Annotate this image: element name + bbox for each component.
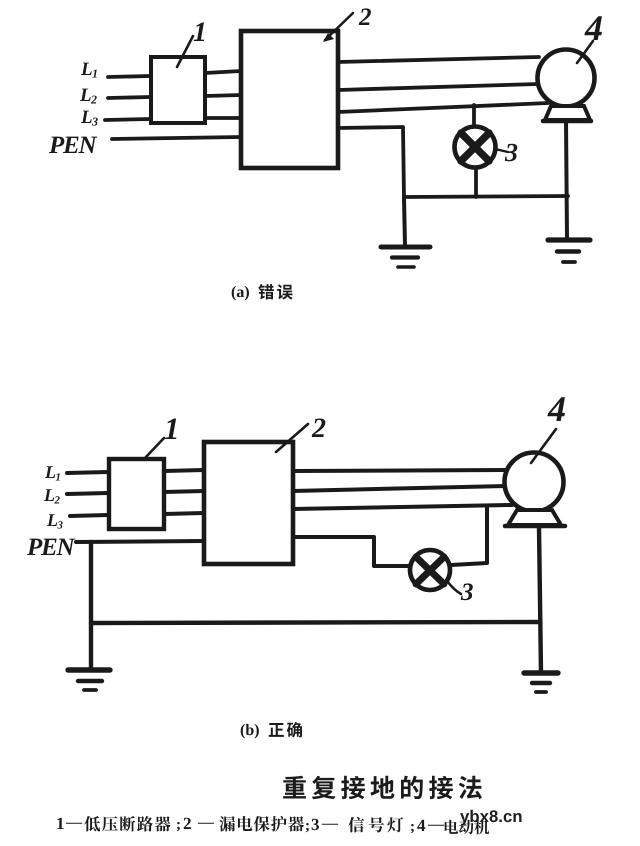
signal lamp 3 (b) [410, 550, 450, 590]
legend item 2 leakage protector [219, 816, 304, 832]
wire lamp right up to L3 (b) [451, 506, 487, 565]
wire N RCD output to lamp left (b) [293, 537, 411, 566]
wire lamp bottom to bus (a) [474, 167, 478, 197]
wire L1 input to breaker (a) [108, 76, 150, 77]
motor 4 circle (a) [538, 50, 595, 107]
RCD box 2 (a) leakage protector [241, 31, 338, 168]
motor 4 circle (b) [505, 453, 564, 512]
wire L2 breaker to RCD (b) [164, 491, 204, 492]
wire L2 input to breaker (b) [67, 493, 108, 494]
node L1 label (diagram b) [45, 466, 60, 480]
label 3 leader line (a) [495, 149, 508, 152]
wire L3 input to breaker (b) [70, 515, 108, 516]
wire L1 breaker to RCD (a) [205, 71, 241, 73]
wire L1 RCD to motor (a) [338, 57, 539, 62]
caption (a) wrong [232, 286, 249, 301]
wire motor down to ground (b) [539, 527, 541, 673]
title: repeated grounding connection method [283, 776, 482, 800]
label 4 (a) [584, 16, 602, 40]
breaker box 1 (b) low-voltage circuit breaker [109, 459, 164, 529]
RCD box 2 (b) leakage protector [204, 442, 293, 564]
node L2 label (diagram a) [80, 89, 97, 104]
wire L3 breaker to RCD (a) [205, 116, 241, 120]
label 4 (b) [547, 397, 565, 421]
label 4 leader line (a) [577, 41, 593, 63]
label 3 (b) [461, 583, 473, 600]
node L3 label (diagram b) [47, 514, 63, 528]
caption (b) correct [241, 724, 259, 739]
label 1 leader line (b) [145, 438, 164, 458]
legend item 1 low-voltage circuit breaker [57, 818, 82, 829]
wire L2 RCD to motor (a) [338, 84, 538, 90]
legend item 3 signal lamp [348, 817, 403, 833]
legend item 4 electric motor [445, 820, 490, 835]
node L3 label (diagram a) [81, 111, 98, 126]
wire L2 breaker to RCD (a) [205, 95, 241, 96]
label 2 (b) [312, 419, 326, 438]
wire PEN input to RCD (b) [76, 541, 204, 542]
signal lamp 3 (a) [455, 127, 496, 168]
label 2 leader line (b) [276, 424, 308, 452]
label 4 leader line (b) [531, 429, 556, 463]
wire L3 input to breaker (a) [105, 119, 150, 120]
wire motor down to ground (a) [566, 121, 567, 238]
wire PEN down to ground and bus junction (b) [89, 542, 93, 669]
motor base pedestal (b) [505, 510, 565, 526]
label 2 leader line with arrowhead (a) [323, 13, 353, 42]
wire PEN bus to motor ground wire (a) [404, 196, 568, 197]
wire L1 input to breaker (b) [67, 472, 108, 473]
wire L2 RCD to motor (b) [293, 486, 506, 491]
label 3 leader line (b) [447, 581, 461, 594]
ground symbol left (a) [381, 247, 430, 267]
wire L3 RCD to motor (b) [293, 505, 512, 509]
label 1 (b) [165, 419, 177, 440]
ground symbol right at motor (b) [524, 673, 558, 692]
ground symbol left (b) [68, 670, 110, 690]
label 1 leader line (a) [177, 36, 193, 67]
ground symbol right at motor (a) [548, 240, 590, 262]
wire L2 input to breaker (a) [108, 97, 150, 98]
node L2 label (diagram b) [44, 489, 60, 503]
watermark ybx8.cn [460, 810, 521, 826]
wire PEN input to RCD (a) [112, 137, 241, 139]
wire L1 RCD to motor (b) [293, 470, 505, 471]
breaker box 1 (a) low-voltage circuit breaker [151, 57, 205, 123]
wire lamp top connection to L3 (a) [472, 105, 476, 128]
wire L3 RCD to motor (a) [338, 103, 548, 112]
label 3 (a) [505, 144, 518, 162]
label 1 (a) [194, 23, 205, 42]
motor base pedestal (a) [543, 106, 591, 121]
label 2 (a) [359, 8, 371, 25]
wire repeated-grounding bus (b) [91, 622, 540, 623]
node L1 label (diagram a) [81, 63, 97, 78]
wire L3 breaker to RCD (b) [164, 513, 204, 514]
wire PEN down to left ground (a) [404, 198, 405, 246]
node PEN label (diagram a) [49, 137, 97, 153]
wire PEN RCD output turning down (a) [338, 127, 404, 198]
wire L1 breaker to RCD (b) [164, 470, 204, 471]
node PEN label (diagram b) [27, 539, 75, 555]
